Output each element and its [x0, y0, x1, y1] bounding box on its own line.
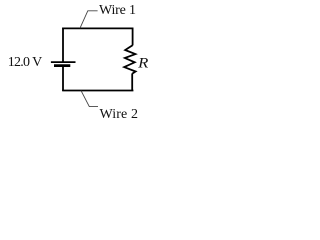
callout leader line to Wire 2 label [81, 91, 98, 107]
battery V1 positive plate (long) [51, 61, 76, 63]
wire left vertical upper (top wire to battery + plate) [62, 28, 64, 62]
callout leader line to Wire 1 label [80, 11, 98, 28]
wire Wire 2 (bottom horizontal) [62, 90, 133, 92]
svg-text:R: R [137, 55, 149, 71]
battery V1 negative plate (short thick) [54, 64, 70, 67]
wire Wire 1 (top horizontal) [62, 27, 133, 29]
resistor R zigzag [124, 45, 135, 73]
wire left vertical lower (battery - plate to bottom wire) [62, 67, 64, 91]
wire right vertical lower (resistor to bottom wire) [131, 73, 133, 91]
svg-text:Wire 2: Wire 2 [100, 107, 139, 122]
svg-text:Wire 1: Wire 1 [99, 3, 136, 18]
wire right vertical upper (top wire to resistor) [132, 28, 134, 46]
svg-text:12.0 V: 12.0 V [8, 55, 43, 70]
